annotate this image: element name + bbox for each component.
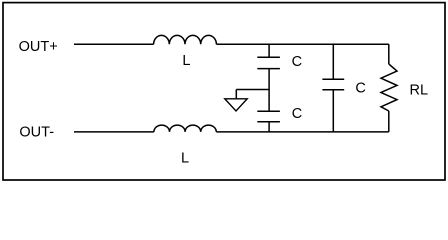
svg-text:L: L bbox=[181, 151, 189, 167]
svg-text:L: L bbox=[182, 53, 190, 69]
svg-text:C: C bbox=[355, 80, 365, 96]
svg-text:C: C bbox=[292, 54, 302, 70]
svg-text:C: C bbox=[292, 106, 302, 122]
svg-text:RL: RL bbox=[410, 82, 429, 98]
svg-text:OUT-: OUT- bbox=[19, 125, 54, 141]
svg-text:OUT+: OUT+ bbox=[19, 39, 58, 55]
